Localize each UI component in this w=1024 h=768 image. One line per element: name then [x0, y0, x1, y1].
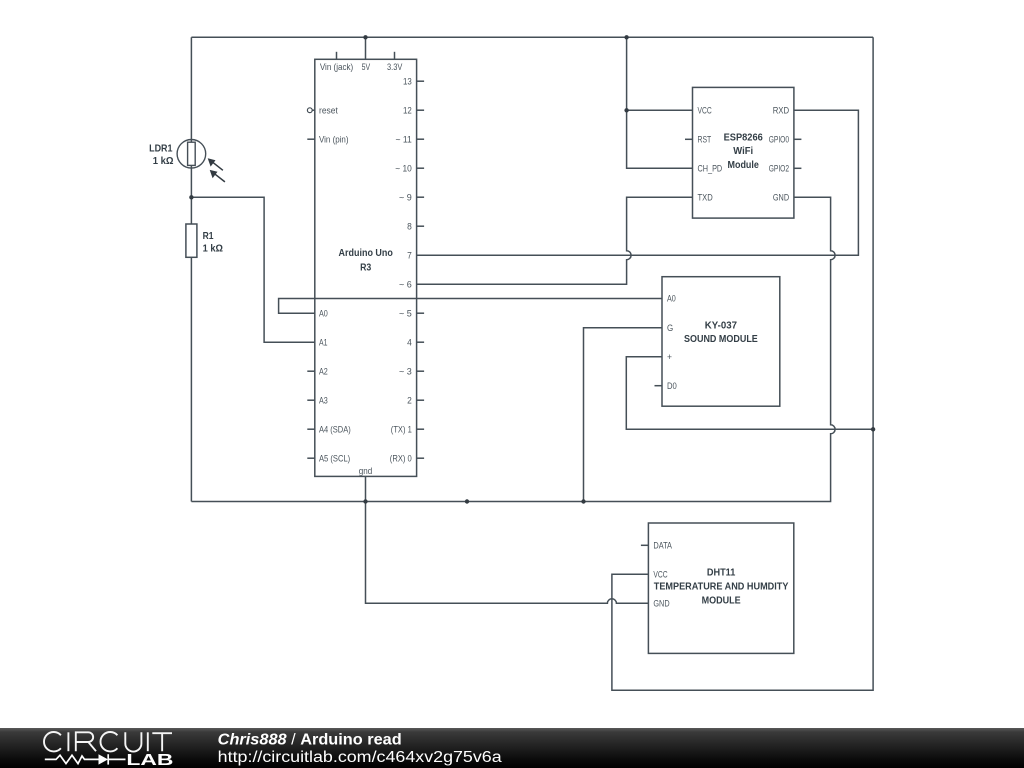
DHT11 pin DATA — [641, 541, 673, 552]
wire Arduino gnd down to DHT11 GND (hop over VCC drop) — [366, 476, 649, 603]
KY-037 pin D0 — [655, 381, 677, 392]
Arduino pin (TX) 1 — [391, 424, 424, 435]
Arduino pin (RX) 0 — [390, 453, 424, 464]
wire 5V rail down to ESP8266 CH_PD — [627, 37, 693, 168]
svg-text:http://circuitlab.com/c464xv2g: http://circuitlab.com/c464xv2g75v6a — [218, 749, 502, 766]
Arduino pin ~ 11 — [396, 134, 425, 145]
Arduino pin 4 — [407, 337, 424, 348]
resistor R1 — [186, 224, 197, 257]
wire right 5V rail down and around to DHT11 VCC — [612, 37, 873, 690]
wire KY-037 + to 5V right rail — [626, 357, 873, 430]
Arduino pin ~ 3 — [399, 366, 424, 377]
svg-text:Chris888 / Arduino read: Chris888 / Arduino read — [218, 731, 402, 748]
wire node LDR1/R1 to Arduino A1 — [191, 197, 314, 342]
Arduino pin 12 — [403, 105, 424, 116]
junction gnd rail / KY-037 G — [581, 499, 585, 503]
Arduino pin ~ 9 — [399, 192, 424, 203]
junction LDR1/R1/A1 node — [189, 195, 193, 199]
Arduino pin Vin (jack) — [320, 52, 353, 73]
wire 5V rail to Arduino 5V pin — [365, 37, 367, 59]
Arduino pin A3 — [307, 395, 328, 406]
Arduino pin Vin (pin) — [307, 134, 348, 145]
wire left rail through LDR1 down to R1 — [190, 37, 192, 224]
footer bar — [0, 728, 1024, 768]
Arduino pin A5 (SCL) — [307, 453, 350, 464]
Arduino pin ~ 10 — [395, 163, 424, 174]
ESP8266 pin RST — [685, 135, 711, 146]
photoresistor LDR1 — [177, 140, 225, 182]
wire R1 to gnd rail — [190, 257, 192, 501]
wire 5V top rail — [191, 36, 873, 38]
Arduino pin 2 — [407, 395, 424, 406]
junction 5V rail / Arduino 5V — [363, 35, 367, 39]
Arduino pin ~ 6 — [399, 279, 412, 290]
CircuitLab logo CIRCUIT lettering — [44, 732, 172, 752]
wire KY-037 G to gnd rail — [584, 328, 663, 502]
svg-text:LAB: LAB — [126, 752, 173, 768]
ESP8266 pin GPIO0 — [769, 135, 802, 146]
IC U2 ESP8266 WiFi module box — [693, 87, 794, 218]
wire ESP8266 RXD to Arduino pin 7 — [417, 110, 859, 255]
wire ESP8266 VCC branch — [627, 109, 693, 111]
Arduino pin 7 — [407, 250, 412, 261]
IC U4 DHT11 module box — [648, 523, 793, 653]
IC U1 Arduino Uno R3 box — [315, 59, 417, 476]
junction + rail / right 5V rail — [871, 427, 875, 431]
Arduino pin 3.3V — [387, 52, 403, 73]
junction gnd rail mid — [465, 499, 469, 503]
Arduino pin 8 — [407, 221, 424, 232]
junction gnd rail / Arduino gnd — [363, 499, 367, 503]
Arduino pin 13 — [403, 76, 424, 87]
Arduino pin A4 (SDA) — [307, 424, 350, 435]
Arduino pin A2 — [307, 366, 328, 377]
wire KY-037 A0 to Arduino A0 — [279, 299, 662, 314]
junction ESP VCC branch — [624, 108, 628, 112]
CircuitLab logo resistor-diode wire — [45, 754, 126, 764]
Arduino pin ~ 5 — [399, 308, 424, 319]
wire ESP8266 TXD to Arduino pin 6 (hop over pin7 wire) — [417, 197, 693, 284]
IC U3 KY-037 sound module box — [662, 277, 780, 407]
ESP8266 pin GPIO2 — [769, 164, 802, 175]
wire ESP8266 GND to gnd rail (hops over pin7 wire and + rail) — [191, 197, 835, 501]
junction 5V rail / ESP branch — [624, 35, 628, 39]
Arduino pin reset (stub with circle) — [307, 105, 338, 116]
